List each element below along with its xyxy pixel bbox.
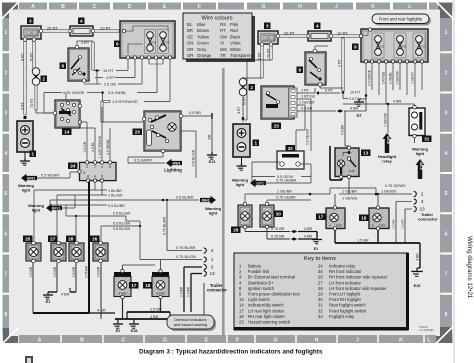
svg-text:4 BR: 4 BR: [350, 107, 359, 111]
svg-text:10 RT: 10 RT: [103, 69, 114, 73]
svg-text:23: 23: [135, 130, 141, 135]
svg-text:17: 17: [239, 308, 244, 313]
svg-text:WS: WS: [220, 47, 227, 52]
svg-text:Brown: Brown: [197, 28, 210, 33]
svg-text:Hazard warning switch: Hazard warning switch: [248, 320, 291, 325]
svg-text:2: 2: [4, 70, 7, 76]
svg-text:RH front indicator: RH front indicator: [329, 269, 362, 274]
svg-text:A: A: [31, 4, 35, 10]
svg-text:1: 1: [445, 30, 448, 36]
svg-text:26: 26: [92, 237, 98, 242]
svg-text:2.5 BR: 2.5 BR: [401, 219, 405, 229]
svg-text:FOG: FOG: [379, 224, 386, 228]
svg-text:25: 25: [25, 237, 31, 242]
svg-text:4 RT: 4 RT: [337, 58, 341, 67]
svg-text:6 RT: 6 RT: [325, 89, 334, 93]
svg-text:1: 1: [31, 152, 34, 157]
svg-text:Green: Green: [197, 41, 209, 46]
svg-text:B: B: [61, 4, 65, 10]
svg-text:0.75 GE/BR: 0.75 GE/BR: [276, 196, 296, 200]
svg-text:7: 7: [4, 272, 7, 278]
svg-text:0.5 BL: 0.5 BL: [91, 142, 95, 152]
svg-text:6/C8: 6/C8: [386, 136, 390, 144]
svg-text:4 BR: 4 BR: [304, 227, 313, 231]
svg-text:H: H: [315, 337, 319, 343]
svg-text:13: 13: [239, 297, 244, 302]
svg-text:D: D: [128, 4, 132, 10]
svg-text:light: light: [236, 182, 245, 187]
svg-text:4 BR: 4 BR: [61, 293, 70, 297]
svg-text:Transparent: Transparent: [230, 53, 254, 58]
svg-text:0.75 BR: 0.75 BR: [85, 265, 89, 278]
svg-text:2.5 BR: 2.5 BR: [392, 219, 396, 229]
svg-text:4: 4: [445, 151, 448, 157]
svg-text:70 RT: 70 RT: [30, 51, 34, 62]
svg-text:J: J: [356, 337, 359, 343]
svg-text:0.5 GR/RT: 0.5 GR/RT: [134, 158, 153, 163]
svg-text:9: 9: [109, 165, 111, 169]
svg-text:A: A: [38, 337, 42, 343]
svg-text:F22: F22: [380, 45, 385, 49]
svg-text:0.5 BR: 0.5 BR: [72, 266, 76, 277]
svg-text:1 BL/GN: 1 BL/GN: [108, 194, 122, 198]
svg-text:connector: connector: [207, 288, 227, 293]
svg-text:6/H1: 6/H1: [202, 198, 210, 202]
svg-text:RT: RT: [220, 28, 226, 33]
svg-text:0.5 BR: 0.5 BR: [301, 107, 313, 111]
svg-text:13: 13: [420, 207, 425, 212]
svg-text:30: 30: [318, 297, 323, 302]
svg-text:1 GE/BR: 1 GE/BR: [277, 190, 292, 194]
svg-text:4 INDI: 4 INDI: [156, 292, 164, 296]
svg-text:9: 9: [354, 45, 357, 50]
svg-text:13: 13: [363, 151, 369, 156]
svg-text:3: 3: [4, 111, 7, 117]
svg-text:BR: BR: [208, 134, 212, 139]
svg-text:4/E4: 4/E4: [172, 161, 181, 165]
svg-text:E1: E1: [46, 300, 51, 304]
svg-text:Blue: Blue: [197, 22, 206, 27]
svg-text:0.5 BR: 0.5 BR: [97, 266, 101, 277]
svg-text:23: 23: [239, 320, 244, 325]
svg-text:28: 28: [318, 286, 323, 291]
svg-text:0.75 GE/WS: 0.75 GE/WS: [385, 184, 406, 188]
svg-text:8: 8: [298, 68, 301, 73]
svg-text:4: 4: [4, 151, 7, 157]
svg-text:14: 14: [239, 303, 244, 308]
svg-text:4 INDI: 4 INDI: [118, 292, 126, 296]
svg-text:Light switch: Light switch: [248, 297, 271, 302]
svg-text:Front foglight switch: Front foglight switch: [329, 308, 367, 313]
svg-text:1.5 RT/SW/GE: 1.5 RT/SW/GE: [112, 99, 138, 104]
svg-text:K: K: [371, 4, 375, 10]
svg-text:Black: Black: [230, 34, 241, 39]
svg-text:RS: RS: [220, 22, 226, 27]
svg-text:1 GE/VI: 1 GE/VI: [411, 72, 415, 83]
svg-text:Ignition switch: Ignition switch: [248, 286, 275, 291]
svg-text:Front LH foglight: Front LH foglight: [329, 292, 361, 297]
svg-text:F34: F34: [165, 41, 170, 45]
svg-text:2: 2: [445, 70, 448, 76]
svg-text:0.5 BL/BR: 0.5 BL/BR: [108, 204, 125, 208]
svg-text:0.5 BL/GN: 0.5 BL/GN: [113, 227, 131, 231]
svg-text:1 GE/SW: 1 GE/SW: [396, 70, 400, 84]
svg-text:18: 18: [239, 314, 244, 319]
svg-text:light: light: [209, 211, 218, 216]
svg-text:27: 27: [318, 280, 323, 285]
svg-text:Foglight relay: Foglight relay: [329, 314, 355, 319]
svg-text:1: 1: [254, 141, 257, 146]
svg-text:E: E: [163, 4, 167, 10]
svg-text:4: 4: [94, 175, 96, 179]
svg-text:Front RH foglight: Front RH foglight: [329, 297, 361, 302]
svg-text:E1: E1: [314, 247, 318, 251]
svg-text:light: light: [416, 151, 425, 156]
svg-text:LH rear light cluster: LH rear light cluster: [248, 308, 285, 313]
svg-text:B: B: [80, 337, 84, 343]
svg-text:32: 32: [288, 146, 294, 151]
svg-text:6/G1: 6/G1: [52, 206, 60, 210]
svg-text:0.5 BL/BR: 0.5 BL/BR: [176, 196, 194, 200]
svg-text:0.5 BR: 0.5 BR: [189, 110, 201, 115]
svg-text:0.75 BL/BR: 0.75 BL/BR: [162, 216, 166, 235]
svg-text:26: 26: [318, 275, 323, 280]
svg-text:Violet: Violet: [230, 41, 241, 46]
svg-text:23: 23: [274, 124, 280, 129]
svg-text:Key to items: Key to items: [304, 256, 336, 262]
svg-text:1 GE/SW: 1 GE/SW: [384, 112, 388, 126]
svg-text:3: 3: [445, 111, 448, 117]
svg-text:C: C: [93, 4, 97, 10]
svg-text:OR: OR: [187, 53, 193, 58]
svg-text:0.5 SW/BL: 0.5 SW/BL: [106, 139, 110, 155]
svg-text:29: 29: [318, 292, 323, 297]
svg-text:6 RT: 6 RT: [21, 101, 25, 109]
svg-text:0.5 GE/GR: 0.5 GE/GR: [305, 128, 309, 145]
svg-text:5: 5: [101, 175, 103, 179]
svg-text:1.5 BR: 1.5 BR: [150, 308, 162, 312]
svg-text:F17: F17: [421, 45, 426, 49]
svg-text:F: F: [236, 337, 239, 343]
svg-text:30: 30: [276, 212, 282, 217]
svg-text:0.5 GR: 0.5 GR: [83, 141, 87, 152]
svg-text:5: 5: [4, 191, 7, 197]
svg-text:Direction indicators: Direction indicators: [174, 318, 206, 322]
svg-text:FOG: FOG: [336, 224, 343, 228]
svg-text:2.5 BR: 2.5 BR: [187, 286, 191, 297]
svg-text:1 GE/BL: 1 GE/BL: [389, 72, 393, 84]
svg-text:RH rear light cluster: RH rear light cluster: [248, 314, 286, 319]
svg-text:5: 5: [445, 191, 448, 197]
svg-text:J: J: [335, 4, 338, 10]
svg-text:4 RT: 4 RT: [106, 76, 115, 80]
svg-text:13: 13: [210, 271, 215, 276]
svg-text:G: G: [273, 337, 277, 343]
svg-text:70 RT: 70 RT: [30, 97, 34, 107]
svg-text:10 RT: 10 RT: [337, 31, 348, 36]
svg-text:0.5 BR: 0.5 BR: [53, 266, 57, 277]
svg-text:BR: BR: [187, 28, 193, 33]
svg-text:LH front indicator: LH front indicator: [329, 280, 361, 285]
svg-text:28: 28: [68, 237, 74, 242]
svg-text:8: 8: [445, 312, 448, 318]
svg-text:1 GE/SW: 1 GE/SW: [299, 101, 315, 105]
svg-text:4 BR: 4 BR: [393, 100, 402, 104]
svg-text:SW: SW: [220, 34, 227, 39]
svg-text:Red: Red: [230, 28, 238, 33]
svg-text:E: E: [205, 337, 209, 343]
svg-text:E13: E13: [209, 160, 216, 164]
svg-text:2: 2: [42, 77, 45, 82]
svg-text:18: 18: [145, 283, 151, 288]
svg-text:B+ External start terminal: B+ External start terminal: [248, 275, 295, 280]
svg-text:10 RT: 10 RT: [100, 26, 111, 31]
svg-text:K: K: [399, 337, 403, 343]
svg-text:29: 29: [233, 228, 239, 233]
svg-text:24: 24: [70, 164, 76, 169]
svg-text:0.5 BL/GN: 0.5 BL/GN: [113, 212, 131, 216]
svg-text:Orange: Orange: [197, 53, 212, 58]
svg-text:D: D: [163, 337, 167, 343]
svg-text:4: 4: [316, 24, 319, 29]
svg-text:6/H1: 6/H1: [27, 176, 35, 180]
svg-text:2: 2: [250, 85, 253, 90]
svg-text:C: C: [122, 337, 126, 343]
svg-text:GE: GE: [187, 34, 193, 39]
svg-text:6/F1: 6/F1: [256, 181, 264, 185]
svg-text:E15: E15: [131, 329, 138, 333]
svg-text:10 RT: 10 RT: [350, 91, 361, 95]
svg-text:1 RT/GE: 1 RT/GE: [382, 71, 386, 84]
svg-text:relay: relay: [382, 159, 392, 164]
svg-text:0.5 WS/RT: 0.5 WS/RT: [41, 173, 61, 178]
svg-text:Grey: Grey: [197, 47, 207, 52]
svg-text:2: 2: [86, 165, 88, 169]
svg-text:0.75 BR: 0.75 BR: [271, 227, 285, 231]
svg-text:1 GE/WS: 1 GE/WS: [381, 190, 397, 194]
svg-text:LH front indicator side repeat: LH front indicator side repeater: [329, 286, 387, 291]
svg-text:1 RT: 1 RT: [301, 89, 310, 93]
svg-text:1.5 BR: 1.5 BR: [357, 238, 369, 242]
svg-text:E2: E2: [116, 329, 121, 333]
svg-text:17: 17: [318, 215, 324, 220]
svg-text:8: 8: [87, 175, 89, 179]
svg-text:70 RT: 70 RT: [267, 47, 271, 58]
svg-text:31: 31: [318, 303, 323, 308]
svg-text:0.5 BL/GN: 0.5 BL/GN: [192, 149, 196, 166]
svg-text:17: 17: [131, 283, 137, 288]
svg-text:White: White: [230, 47, 242, 52]
svg-text:24: 24: [318, 264, 323, 269]
svg-text:1 GE/BR: 1 GE/BR: [342, 190, 357, 194]
svg-text:F 26: F 26: [349, 169, 355, 173]
svg-text:Yellow: Yellow: [197, 34, 210, 39]
svg-text:2.5 BR: 2.5 BR: [180, 286, 184, 297]
svg-text:1.5 RT/SW/GE: 1.5 RT/SW/GE: [98, 135, 102, 158]
svg-text:25 RT: 25 RT: [47, 26, 58, 31]
svg-text:Distributor B+: Distributor B+: [248, 280, 274, 285]
svg-text:Diagram 3 : Typical hazard/dir: Diagram 3 : Typical hazard/direction ind…: [139, 349, 323, 356]
svg-text:1 RT/GE: 1 RT/GE: [301, 95, 316, 99]
svg-text:25: 25: [318, 269, 323, 274]
svg-text:8: 8: [61, 64, 64, 69]
svg-text:GR: GR: [187, 47, 193, 52]
svg-text:14: 14: [64, 130, 70, 135]
svg-text:8: 8: [4, 312, 7, 318]
svg-text:VI: VI: [220, 41, 224, 46]
svg-text:9: 9: [116, 42, 119, 47]
svg-text:G: G: [261, 4, 265, 10]
svg-text:Front and rear foglights: Front and rear foglights: [379, 17, 422, 22]
svg-text:0.5 BR: 0.5 BR: [29, 266, 33, 277]
svg-text:4 RT: 4 RT: [237, 106, 241, 113]
svg-text:6 RT: 6 RT: [258, 51, 262, 60]
svg-text:E2: E2: [357, 114, 362, 118]
svg-text:4: 4: [101, 165, 103, 169]
svg-text:3: 3: [29, 19, 32, 24]
svg-text:light: light: [32, 208, 41, 213]
svg-text:Wire colours: Wire colours: [201, 16, 232, 22]
svg-text:1 BL/BR: 1 BL/BR: [108, 189, 122, 193]
svg-text:6: 6: [445, 231, 448, 237]
svg-text:Lighting: Lighting: [164, 168, 182, 173]
svg-text:BL: BL: [187, 22, 193, 27]
svg-text:Wiring diagrams 12•21: Wiring diagrams 12•21: [466, 236, 473, 299]
svg-text:Fusible link: Fusible link: [248, 269, 270, 274]
svg-text:F15: F15: [402, 45, 407, 49]
svg-text:25 RT: 25 RT: [284, 31, 295, 36]
svg-text:18: 18: [361, 216, 367, 221]
svg-text:RH front indicator side repeat: RH front indicator side repeater: [329, 275, 388, 280]
svg-text:light: light: [22, 188, 31, 193]
svg-text:0.75 GE/BR: 0.75 GE/BR: [276, 179, 297, 183]
svg-text:Rear foglight switch: Rear foglight switch: [329, 303, 366, 308]
svg-text:33: 33: [318, 314, 323, 319]
svg-text:0.5 BL/GN: 0.5 BL/GN: [113, 222, 131, 226]
svg-text:6/L5: 6/L5: [419, 162, 423, 169]
svg-text:4 BR: 4 BR: [415, 253, 419, 261]
svg-text:4 BR: 4 BR: [150, 315, 159, 319]
svg-text:F23: F23: [152, 41, 157, 45]
svg-text:1: 1: [4, 30, 7, 36]
svg-text:Indicator relay: Indicator relay: [329, 264, 356, 269]
svg-text:Front power distribution box: Front power distribution box: [248, 292, 301, 297]
svg-text:6 RT: 6 RT: [21, 52, 25, 61]
svg-text:31: 31: [424, 137, 430, 142]
svg-text:TR: TR: [220, 53, 226, 58]
svg-text:6: 6: [4, 231, 7, 237]
svg-text:H: H: [298, 4, 302, 10]
svg-text:4 RT: 4 RT: [81, 41, 90, 45]
svg-text:32: 32: [318, 308, 323, 313]
svg-text:Indicator/dip switch: Indicator/dip switch: [248, 303, 284, 308]
svg-text:0.5 GN/GE: 0.5 GN/GE: [368, 69, 372, 86]
svg-text:0.75 BL/BR: 0.75 BL/BR: [176, 246, 196, 250]
svg-text:F: F: [198, 4, 201, 10]
svg-text:1 GE/WS: 1 GE/WS: [342, 196, 358, 200]
svg-text:7: 7: [445, 272, 448, 278]
svg-text:7: 7: [94, 165, 96, 169]
svg-text:connector: connector: [418, 217, 438, 222]
svg-text:0.5 GN/BL: 0.5 GN/BL: [108, 90, 127, 95]
svg-text:27: 27: [50, 237, 56, 242]
svg-text:E15: E15: [414, 284, 421, 288]
svg-text:1-9-W94683: 1-9-W94683: [419, 328, 434, 332]
svg-text:Pink: Pink: [230, 22, 239, 27]
svg-text:3: 3: [83, 171, 85, 175]
svg-text:Battery: Battery: [248, 264, 262, 269]
svg-text:0.5 BR: 0.5 BR: [340, 124, 344, 135]
svg-text:4: 4: [80, 19, 83, 24]
svg-text:GN: GN: [187, 41, 193, 46]
svg-text:2.5 GN: 2.5 GN: [104, 82, 116, 86]
svg-text:0.75 BR: 0.75 BR: [271, 235, 285, 239]
svg-text:3: 3: [266, 24, 269, 29]
svg-text:0.75 BL/GN: 0.75 BL/GN: [176, 255, 196, 259]
svg-text:and hazard warning: and hazard warning: [174, 323, 207, 327]
svg-text:4 BR: 4 BR: [304, 235, 313, 239]
